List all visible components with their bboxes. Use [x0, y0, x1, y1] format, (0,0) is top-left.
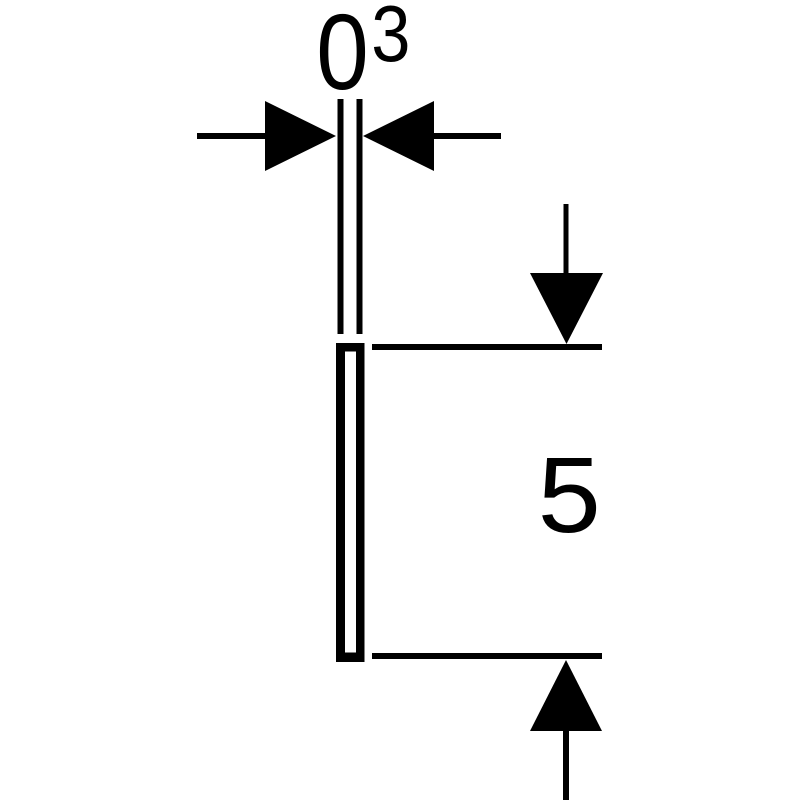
panel inner white — [345, 352, 356, 653]
arrowhead pointing up — [530, 660, 602, 731]
arrowhead pointing down — [530, 273, 603, 344]
wire: top dimension line for 5 — [372, 344, 602, 350]
extension line right — [357, 99, 363, 334]
arrowhead pointing right — [265, 101, 336, 171]
wire: right horizontal dimension line — [434, 133, 501, 139]
svg-text:0: 0 — [316, 0, 369, 112]
wire: left horizontal dimension line — [197, 133, 266, 139]
wire: bottom dimension line for 5 — [372, 653, 602, 659]
svg-text:5: 5 — [538, 436, 601, 555]
wire: up arrow stem — [563, 731, 569, 800]
arrowhead pointing left — [363, 101, 434, 171]
extension line left — [338, 99, 344, 334]
panel outer outline — [336, 343, 365, 662]
wire: down arrow stem — [564, 204, 569, 274]
svg-text:3: 3 — [371, 0, 410, 78]
